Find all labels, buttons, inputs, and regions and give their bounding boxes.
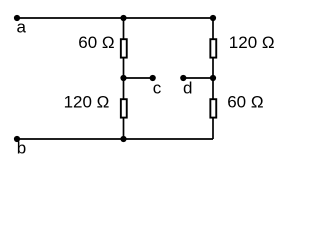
svg-text:120 Ω: 120 Ω <box>229 33 275 52</box>
svg-text:60 Ω: 60 Ω <box>227 93 263 112</box>
svg-text:a: a <box>17 17 27 36</box>
svg-text:d: d <box>183 78 192 97</box>
svg-text:c: c <box>153 78 162 97</box>
svg-text:120 Ω: 120 Ω <box>64 93 110 112</box>
svg-text:b: b <box>17 138 26 157</box>
svg-text:60 Ω: 60 Ω <box>78 33 114 52</box>
